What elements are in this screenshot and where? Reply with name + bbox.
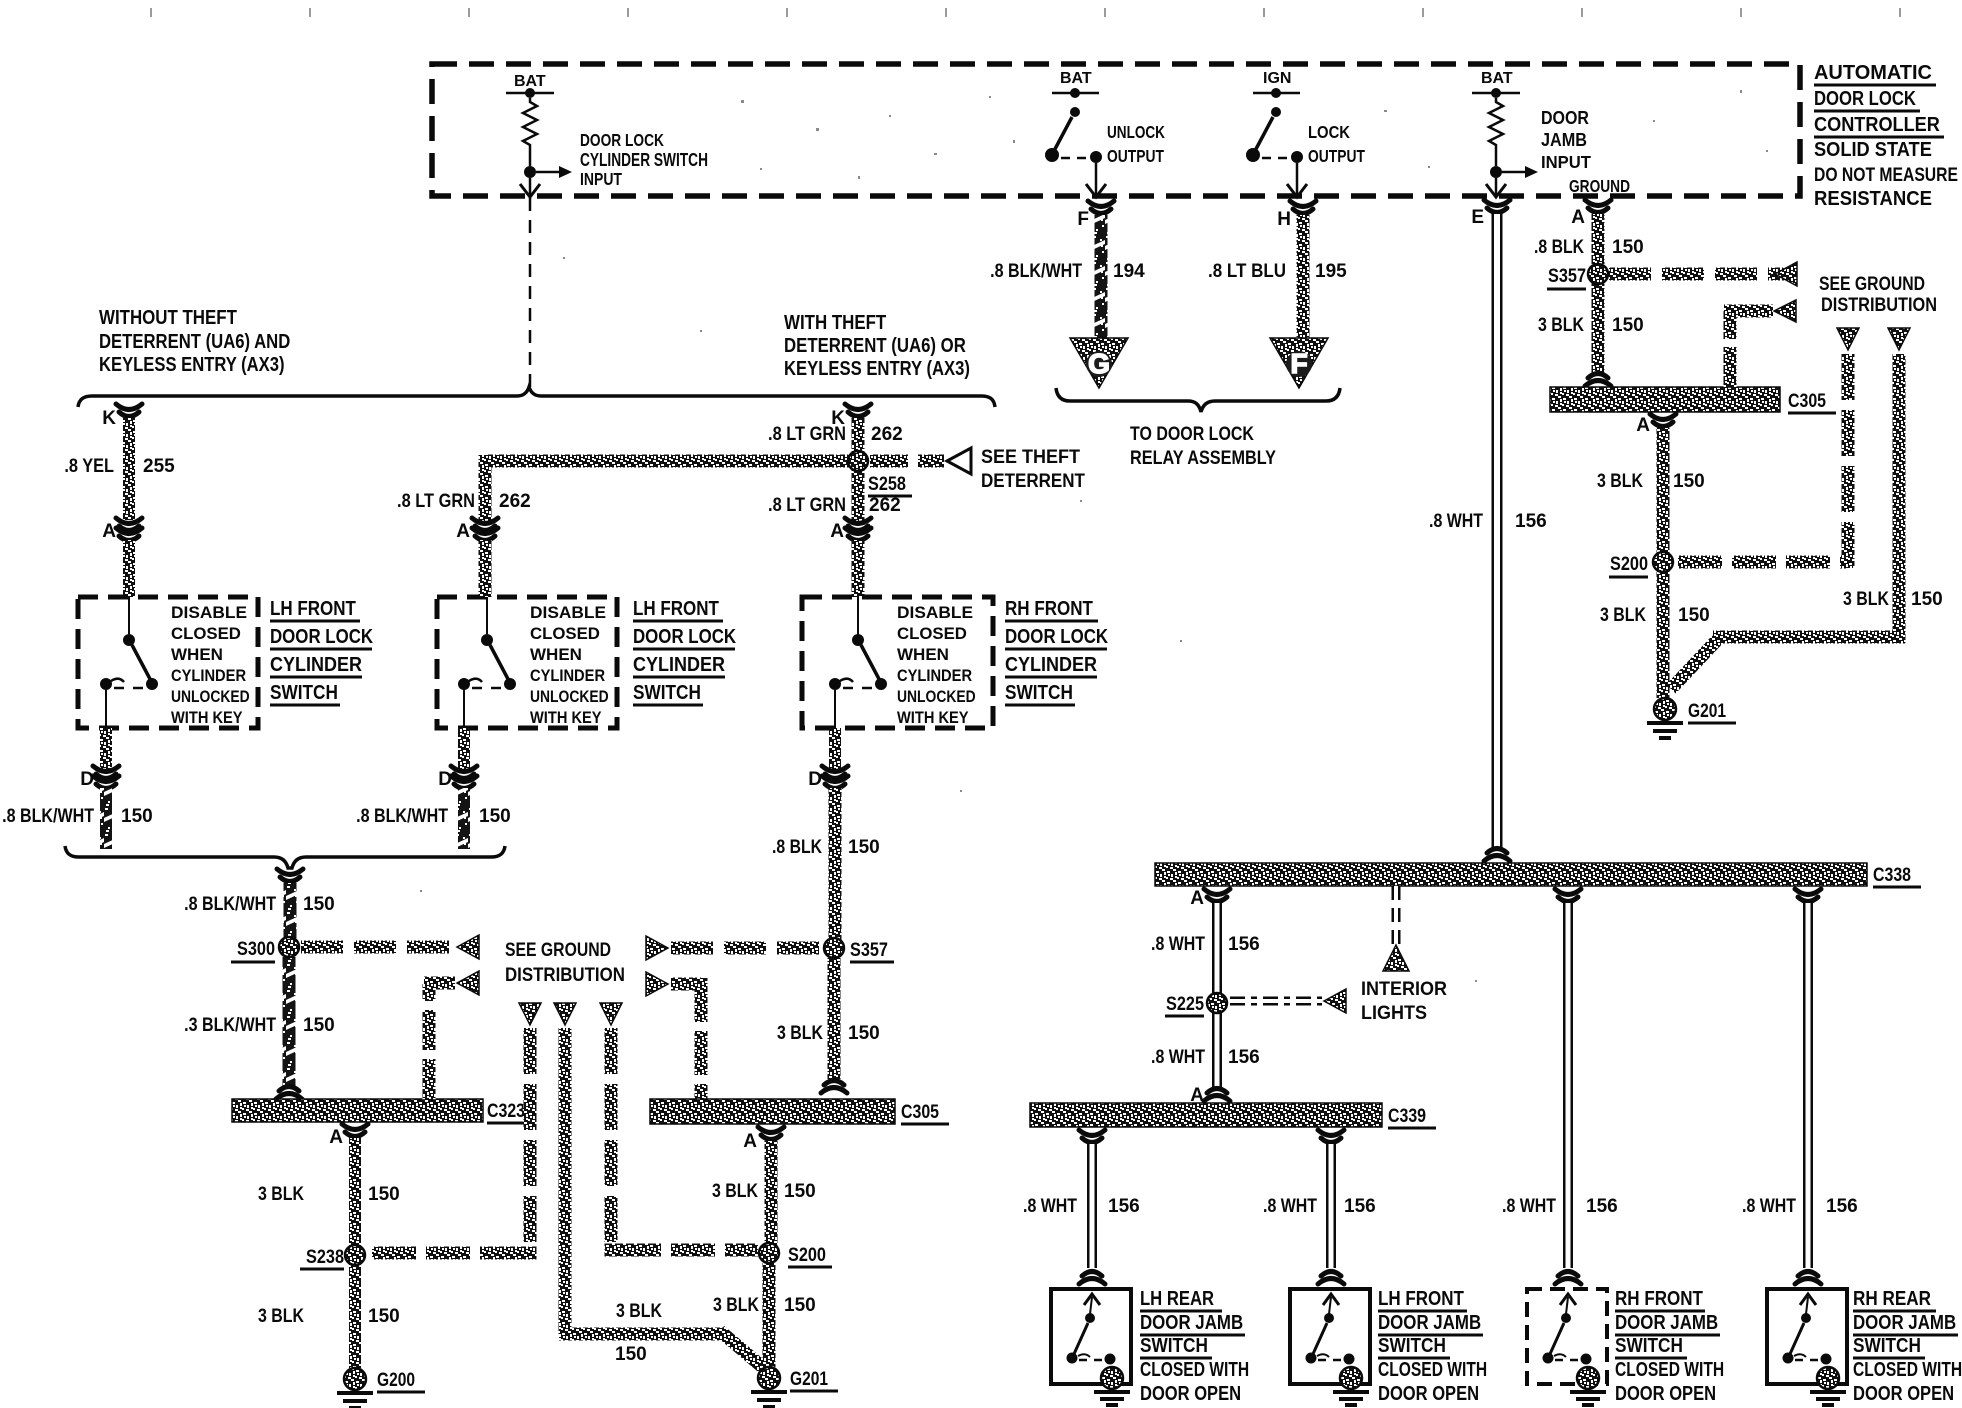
svg-text:RH FRONT: RH FRONT: [1005, 597, 1094, 620]
svg-text:SEE THEFT: SEE THEFT: [981, 446, 1081, 468]
svg-text:LH FRONT: LH FRONT: [1378, 1287, 1465, 1310]
wire: dashed from arrow to S238: [524, 1028, 537, 1253]
svg-text:D: D: [80, 769, 94, 790]
svg-text:CLOSED WITH: CLOSED WITH: [1615, 1358, 1724, 1380]
switch: RH front door jamb switch: [1527, 1289, 1607, 1384]
svg-text:A: A: [743, 1131, 757, 1152]
svg-text:150: 150: [1911, 589, 1943, 610]
wire .8 WHT 156 to LH front jamb switch: [1318, 1130, 1344, 1143]
wire: dashed lead from controller to brace: [529, 198, 532, 387]
svg-text:3 BLK: 3 BLK: [1597, 470, 1643, 492]
svg-text:S238: S238: [306, 1246, 344, 1267]
svg-text:WITH THEFT: WITH THEFT: [784, 311, 887, 334]
svg-text:LH REAR: LH REAR: [1140, 1287, 1214, 1310]
connector C305 middle: [650, 1099, 895, 1124]
wire .8 BLK/WHT 150 left: [100, 788, 112, 849]
ground G201 right: [1647, 698, 1683, 738]
svg-text:DETERRENT (UA6) OR: DETERRENT (UA6) OR: [784, 334, 966, 357]
svg-text:150: 150: [1673, 471, 1705, 492]
svg-text:WHEN: WHEN: [171, 645, 223, 664]
svg-text:G201: G201: [1688, 699, 1726, 721]
svg-text:CLOSED WITH: CLOSED WITH: [1853, 1358, 1962, 1380]
svg-text:RH REAR: RH REAR: [1853, 1287, 1931, 1310]
svg-text:DOOR: DOOR: [1541, 108, 1589, 128]
wire .8 WHT 156 to RH front jamb switch: [1555, 889, 1581, 902]
wire: arrow dashed to S357 middle: [646, 936, 668, 960]
wire: arrow elbow to C305 middle: [646, 972, 668, 996]
svg-text:KEYLESS ENTRY (AX3): KEYLESS ENTRY (AX3): [784, 357, 970, 380]
svg-text:DOOR LOCK: DOOR LOCK: [1814, 87, 1917, 110]
svg-text:LOCK: LOCK: [1308, 123, 1350, 143]
svg-text:150: 150: [848, 837, 880, 858]
svg-text:.8 BLK/WHT: .8 BLK/WHT: [356, 805, 448, 827]
wire 194 .8 BLK/WHT: [1095, 215, 1108, 340]
svg-text:UNLOCKED: UNLOCKED: [530, 688, 609, 707]
svg-text:S200: S200: [1610, 553, 1648, 574]
splice S238: [346, 1246, 364, 1264]
switch: LH rear door jamb switch: [1051, 1289, 1131, 1384]
svg-text:S357: S357: [1548, 265, 1586, 286]
brace: to S300: [65, 846, 505, 868]
svg-text:.8 BLK/WHT: .8 BLK/WHT: [990, 260, 1082, 282]
splice S300: [279, 937, 299, 957]
wire .8 BLK/WHT 150 middle: [458, 788, 470, 849]
svg-text:A: A: [102, 521, 116, 542]
svg-text:LIGHTS: LIGHTS: [1361, 1002, 1427, 1024]
svg-text:150: 150: [121, 806, 153, 827]
svg-text:F: F: [1077, 209, 1089, 230]
wire 3 BLK 150 S200 to G201: [1657, 571, 1670, 698]
svg-text:194: 194: [1113, 261, 1145, 282]
wire: dashed to see ground distribution: [1609, 268, 1797, 281]
svg-text:CLOSED WITH: CLOSED WITH: [1140, 1358, 1249, 1380]
svg-text:DETERRENT: DETERRENT: [981, 470, 1085, 491]
wire 3 BLK 150 elbow to G201: [559, 1028, 572, 1334]
svg-text:3 BLK: 3 BLK: [258, 1183, 304, 1205]
controller U1: automatic door lock controller dashed box: [432, 64, 1800, 196]
wire: elbow from C305 to see ground distribution: [1724, 311, 1737, 387]
svg-text:H: H: [1277, 209, 1291, 230]
svg-text:SWITCH: SWITCH: [1615, 1334, 1683, 1356]
svg-text:262: 262: [499, 491, 531, 512]
svg-text:.8 WHT: .8 WHT: [1151, 933, 1205, 955]
svg-text:BAT: BAT: [1481, 70, 1513, 87]
svg-text:CYLINDER: CYLINDER: [270, 654, 362, 676]
ground G200: [337, 1368, 373, 1408]
svg-text:WITHOUT THEFT: WITHOUT THEFT: [99, 306, 238, 329]
svg-text:SWITCH: SWITCH: [1378, 1334, 1446, 1356]
svg-text:.8 LT GRN: .8 LT GRN: [397, 490, 475, 511]
svg-text:.8 BLK/WHT: .8 BLK/WHT: [2, 805, 94, 827]
svg-text:WITH KEY: WITH KEY: [171, 709, 243, 727]
wire: dashed from S300 to see ground distribution: [301, 941, 455, 954]
svg-text:DOOR JAMB: DOOR JAMB: [1140, 1311, 1243, 1334]
svg-text:CLOSED: CLOSED: [171, 624, 241, 643]
svg-text:.8 BLK: .8 BLK: [1534, 236, 1584, 258]
connector C323: [232, 1099, 483, 1122]
svg-text:SEE GROUND: SEE GROUND: [1819, 273, 1925, 295]
brace: cylinder switch branches: [78, 387, 995, 407]
svg-text:S258: S258: [868, 473, 906, 494]
pin D middle: [458, 728, 470, 772]
svg-text:GROUND: GROUND: [1569, 177, 1630, 196]
wire: interior lights feed from C338: [1392, 886, 1401, 944]
svg-text:INPUT: INPUT: [1541, 151, 1591, 172]
svg-text:D: D: [808, 769, 822, 790]
svg-text:CYLINDER: CYLINDER: [897, 667, 973, 685]
svg-text:156: 156: [1108, 1196, 1140, 1217]
svg-text:A: A: [1190, 888, 1204, 909]
svg-text:OUTPUT: OUTPUT: [1308, 146, 1365, 166]
svg-text:WHEN: WHEN: [897, 645, 949, 664]
wire .8 YEL 255: [123, 418, 135, 520]
connector C305 top right: [1550, 387, 1780, 412]
svg-text:JAMB: JAMB: [1541, 129, 1587, 150]
svg-text:150: 150: [479, 806, 511, 827]
wire 3 BLK 150 C305 to S200: [765, 1141, 778, 1246]
svg-text:LH FRONT: LH FRONT: [270, 597, 357, 620]
svg-text:DISTRIBUTION: DISTRIBUTION: [1821, 294, 1937, 315]
svg-text:.8 LT GRN: .8 LT GRN: [768, 494, 846, 515]
svg-text:CYLINDER SWITCH: CYLINDER SWITCH: [580, 151, 708, 170]
svg-text:DO NOT MEASURE: DO NOT MEASURE: [1814, 164, 1958, 186]
svg-text:SWITCH: SWITCH: [633, 681, 701, 703]
svg-text:CLOSED: CLOSED: [530, 624, 600, 643]
svg-text:DOOR OPEN: DOOR OPEN: [1140, 1381, 1241, 1404]
wire: see ground distribution down-arrows right: [1837, 328, 1859, 350]
switch: LH front door lock cylinder switch (middle): [437, 597, 617, 728]
svg-text:DOOR JAMB: DOOR JAMB: [1378, 1311, 1481, 1334]
svg-text:255: 255: [143, 456, 175, 477]
svg-text:G: G: [1088, 348, 1110, 379]
svg-text:A: A: [1636, 415, 1650, 436]
svg-text:156: 156: [1344, 1196, 1376, 1217]
svg-text:RH FRONT: RH FRONT: [1615, 1287, 1704, 1310]
svg-text:150: 150: [368, 1184, 400, 1205]
svg-text:DETERRENT (UA6) AND: DETERRENT (UA6) AND: [99, 330, 290, 353]
svg-text:150: 150: [368, 1306, 400, 1327]
svg-text:3 BLK: 3 BLK: [258, 1305, 304, 1327]
svg-text:3 BLK: 3 BLK: [1538, 314, 1584, 336]
svg-text:S200: S200: [788, 1244, 826, 1265]
svg-text:156: 156: [1826, 1196, 1858, 1217]
svg-text:A: A: [456, 521, 470, 542]
svg-text:WITH KEY: WITH KEY: [897, 709, 969, 727]
svg-text:150: 150: [1612, 237, 1644, 258]
svg-text:150: 150: [303, 1015, 335, 1036]
splice dot overlays: [279, 264, 1673, 1265]
svg-text:S225: S225: [1166, 993, 1204, 1014]
wire 3 BLK 150 C323 to S238: [349, 1138, 361, 1246]
switch: LH front door jamb switch: [1290, 1289, 1370, 1384]
pin D right: [829, 728, 841, 772]
svg-text:C338: C338: [1873, 864, 1911, 886]
wire .8 BLK/WHT 150 brace to S300: [277, 869, 303, 882]
svg-text:DOOR OPEN: DOOR OPEN: [1378, 1381, 1479, 1404]
scan noise dots: [420, 90, 1768, 982]
svg-text:150: 150: [1612, 315, 1644, 336]
svg-text:BAT: BAT: [514, 73, 546, 90]
splice S200 right: [1654, 553, 1672, 571]
svg-text:DISABLE: DISABLE: [897, 602, 973, 622]
svg-text:C305: C305: [1788, 390, 1826, 412]
wire .8 BLK 150 to S357: [829, 788, 842, 940]
switch: RH front door lock cylinder switch: [802, 597, 993, 728]
svg-text:KEYLESS ENTRY (AX3): KEYLESS ENTRY (AX3): [99, 353, 285, 376]
svg-text:150: 150: [784, 1295, 816, 1316]
wire .8 LT GRN 262 elbow into middle switch: [479, 455, 492, 522]
wire .8 WHT 156 to RH rear jamb switch: [1795, 889, 1821, 902]
svg-text:156: 156: [1586, 1196, 1618, 1217]
svg-text:DOOR JAMB: DOOR JAMB: [1853, 1311, 1956, 1334]
wire: see ground distribution down-arrows center: [519, 1003, 541, 1025]
svg-text:SWITCH: SWITCH: [1853, 1334, 1921, 1356]
svg-text:262: 262: [871, 424, 903, 445]
svg-text:RESISTANCE: RESISTANCE: [1814, 188, 1932, 210]
svg-text:C339: C339: [1388, 1105, 1426, 1127]
resistor R2: door jamb input: [1472, 70, 1591, 197]
svg-text:CLOSED WITH: CLOSED WITH: [1378, 1358, 1487, 1380]
svg-text:A: A: [329, 1127, 343, 1148]
svg-text:S357: S357: [850, 939, 888, 960]
wire .8 WHT 156 to LH rear jamb switch: [1079, 1130, 1105, 1143]
svg-text:CYLINDER: CYLINDER: [530, 667, 606, 685]
svg-text:S300: S300: [237, 938, 275, 959]
connector C338: [1484, 849, 1510, 862]
svg-text:156: 156: [1228, 934, 1260, 955]
svg-text:DOOR LOCK: DOOR LOCK: [633, 625, 737, 648]
ground G201: [751, 1367, 787, 1407]
wire .8 LT GRN horizontal bar: [485, 455, 850, 468]
wire 3 BLK 150 S200 to G201: [763, 1263, 776, 1367]
svg-text:E: E: [1471, 207, 1484, 228]
svg-text:K: K: [102, 408, 116, 429]
svg-text:150: 150: [784, 1181, 816, 1202]
svg-text:UNLOCKED: UNLOCKED: [171, 688, 250, 707]
svg-text:150: 150: [615, 1344, 647, 1365]
wire: dashed link to interior lights: [1230, 997, 1322, 1006]
node F: to door lock relay: [1270, 338, 1328, 388]
wire: dashed to see theft deterrent: [870, 455, 944, 468]
svg-text:WHEN: WHEN: [530, 645, 582, 664]
wire .3 BLK/WHT 150 S300 to C323: [283, 957, 296, 1086]
svg-text:RELAY ASSEMBLY: RELAY ASSEMBLY: [1130, 447, 1276, 468]
splice S357: [1589, 265, 1607, 283]
svg-text:.3 BLK/WHT: .3 BLK/WHT: [184, 1014, 276, 1036]
svg-text:UNLOCKED: UNLOCKED: [897, 688, 976, 707]
svg-text:A: A: [830, 521, 844, 542]
svg-text:WITH KEY: WITH KEY: [530, 709, 602, 727]
svg-text:INTERIOR: INTERIOR: [1361, 978, 1447, 1000]
svg-text:156: 156: [1515, 511, 1547, 532]
svg-text:DOOR LOCK: DOOR LOCK: [1005, 625, 1109, 648]
svg-text:.8 YEL: .8 YEL: [64, 455, 114, 476]
svg-text:D: D: [438, 769, 452, 790]
svg-text:.8 BLK: .8 BLK: [772, 836, 822, 858]
svg-text:SOLID STATE: SOLID STATE: [1814, 139, 1932, 161]
wire 3 BLK 150 below S357: [1592, 282, 1605, 373]
node: with theft deterrent heading: [784, 311, 970, 380]
svg-text:IGN: IGN: [1263, 70, 1291, 87]
svg-text:DOOR LOCK: DOOR LOCK: [580, 131, 664, 150]
top edge scan tick marks: [150, 8, 1901, 17]
svg-text:150: 150: [1678, 605, 1710, 626]
resistor R1: door lock cylinder switch input: [506, 73, 708, 197]
svg-text:.8 LT GRN: .8 LT GRN: [768, 423, 846, 444]
svg-text:BAT: BAT: [1060, 70, 1092, 87]
svg-text:C323: C323: [487, 1100, 525, 1122]
switch: unlock output: [1045, 70, 1165, 197]
svg-text:C305: C305: [901, 1101, 939, 1123]
svg-text:3 BLK: 3 BLK: [616, 1300, 662, 1322]
svg-text:DOOR LOCK: DOOR LOCK: [270, 625, 374, 648]
controller label text: [1814, 62, 1958, 210]
svg-text:TO DOOR LOCK: TO DOOR LOCK: [1130, 423, 1254, 445]
wire 3 BLK 150 S238 to G200: [349, 1264, 361, 1368]
svg-text:3 BLK: 3 BLK: [1843, 588, 1889, 610]
svg-text:AUTOMATIC: AUTOMATIC: [1814, 62, 1932, 84]
wire .8 LT GRN 262 S258 down: [852, 470, 865, 522]
svg-text:150: 150: [848, 1023, 880, 1044]
brace: to door lock relay assembly: [1056, 388, 1340, 412]
svg-text:.8 WHT: .8 WHT: [1263, 1195, 1317, 1217]
switch: RH rear door jamb switch: [1767, 1289, 1847, 1384]
svg-text:G200: G200: [377, 1368, 415, 1390]
svg-text:DOOR OPEN: DOOR OPEN: [1853, 1381, 1954, 1404]
svg-text:LH FRONT: LH FRONT: [633, 597, 720, 620]
svg-text:DISTRIBUTION: DISTRIBUTION: [505, 964, 625, 985]
svg-text:3 BLK: 3 BLK: [713, 1294, 759, 1316]
wire .8 BLK 150 from pin A: [1592, 214, 1605, 267]
svg-text:SWITCH: SWITCH: [270, 681, 338, 703]
svg-text:CLOSED: CLOSED: [897, 624, 967, 643]
wire: dashed from arrow to S200: [605, 1028, 618, 1247]
svg-text:3 BLK: 3 BLK: [1600, 604, 1646, 626]
svg-text:3 BLK: 3 BLK: [712, 1180, 758, 1202]
wire .8 WHT 156 S225 to C339: [1212, 1011, 1222, 1087]
wire 195 .8 LT BLU: [1297, 215, 1310, 340]
svg-text:CONTROLLER: CONTROLLER: [1814, 114, 1940, 136]
svg-text:.8 WHT: .8 WHT: [1023, 1195, 1077, 1217]
svg-text:156: 156: [1228, 1047, 1260, 1068]
svg-text:SEE GROUND: SEE GROUND: [505, 939, 611, 961]
svg-text:.8 LT BLU: .8 LT BLU: [1208, 260, 1286, 281]
splice S258: [849, 452, 867, 470]
svg-text:A: A: [1571, 207, 1585, 228]
svg-text:3 BLK: 3 BLK: [777, 1022, 823, 1044]
node: without theft deterrent heading: [99, 306, 290, 376]
svg-text:.8 BLK/WHT: .8 BLK/WHT: [184, 893, 276, 915]
svg-text:DISABLE: DISABLE: [171, 602, 247, 622]
svg-text:DISABLE: DISABLE: [530, 602, 606, 622]
splice S225: [1207, 993, 1227, 1013]
svg-text:SWITCH: SWITCH: [1140, 1334, 1208, 1356]
svg-text:CYLINDER: CYLINDER: [1005, 654, 1097, 676]
switch: lock output: [1246, 70, 1365, 197]
wire: elbow from C323 to see ground distribution: [423, 984, 436, 1099]
wire 3 BLK 150 S357 to C305: [828, 958, 841, 1079]
wire 156 .8 WHT from pin E: [1492, 214, 1503, 848]
svg-text:OUTPUT: OUTPUT: [1107, 146, 1164, 166]
svg-text:150: 150: [303, 894, 335, 915]
svg-text:CYLINDER: CYLINDER: [633, 654, 725, 676]
svg-text:F: F: [1290, 348, 1307, 379]
svg-text:.8 WHT: .8 WHT: [1742, 1195, 1796, 1217]
svg-text:G201: G201: [790, 1367, 828, 1389]
svg-text:DOOR OPEN: DOOR OPEN: [1615, 1381, 1716, 1404]
svg-text:.8 WHT: .8 WHT: [1151, 1046, 1205, 1068]
splice S200 middle: [760, 1244, 778, 1262]
pin D left: [100, 728, 112, 772]
svg-text:.8 WHT: .8 WHT: [1502, 1195, 1556, 1217]
svg-text:CYLINDER: CYLINDER: [171, 667, 247, 685]
svg-text:195: 195: [1315, 261, 1347, 282]
svg-text:UNLOCK: UNLOCK: [1107, 123, 1165, 142]
svg-text:INPUT: INPUT: [580, 169, 622, 189]
connector C339: [1030, 1103, 1382, 1127]
switch: LH front door lock cylinder switch (left): [78, 597, 258, 728]
wire .8 WHT 156 to S225: [1212, 903, 1222, 996]
wire .8 LT GRN 262 K to S258: [852, 418, 865, 453]
svg-text:DOOR JAMB: DOOR JAMB: [1615, 1311, 1718, 1334]
node G: to door lock relay: [1070, 338, 1128, 388]
svg-text:.8 WHT: .8 WHT: [1429, 510, 1483, 532]
splice S357 middle: [824, 938, 844, 958]
svg-text:SWITCH: SWITCH: [1005, 681, 1073, 703]
svg-text:262: 262: [869, 495, 901, 516]
